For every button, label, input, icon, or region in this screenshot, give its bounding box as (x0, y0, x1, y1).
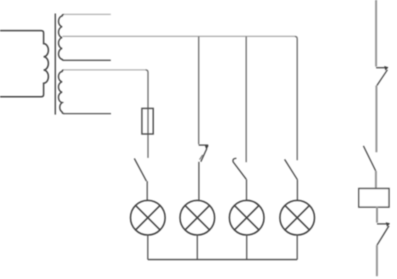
wire: between Q1 and Q2 (375, 86, 377, 153)
lamp E4 (280, 200, 315, 235)
switch Q1 blade (377, 70, 388, 86)
wire: center-tap rail to lamp branches (63, 35, 295, 37)
transformer T1 primary winding (0, 31, 48, 97)
transformer T1 core (54, 14, 56, 115)
wire: lamp E3 bottom stub (246, 235, 248, 260)
transformer T1 lower secondary winding (58, 70, 64, 114)
wire: upper secondary top lead (64, 13, 111, 15)
lamp E3 (229, 200, 264, 235)
wire: switch Q2 to coil K1 (375, 171, 377, 189)
wire: right circuit bottom lead (376, 245, 378, 276)
lamp E1 (131, 200, 166, 235)
wire: bottom return rail (148, 259, 297, 261)
wire: lower secondary top lead (64, 69, 146, 71)
switch S1 blade (134, 158, 146, 181)
wire: branch 1 corner down to fuse (146, 70, 149, 158)
fuse F1 (142, 108, 153, 134)
switch S2 contact tick (199, 144, 209, 146)
switch S2 blade (201, 149, 207, 162)
wire: upper secondary bottom lead (64, 59, 111, 61)
wire: lamp E2 bottom stub (196, 235, 198, 260)
switch S2 blade flag (200, 155, 203, 160)
switch Q3 blade (377, 226, 389, 245)
wire: lower secondary bottom lead (64, 113, 112, 115)
lamp E2 (180, 200, 215, 235)
switch Q3 contact tick (377, 223, 389, 225)
switch S3 blade with hook tip (233, 158, 246, 179)
wire: lamp E1 bottom stub (147, 235, 149, 260)
switch Q2 blade (363, 146, 375, 171)
wire: branch 3 drop (245, 36, 247, 162)
wire: coil K1 to switch Q3 (376, 207, 378, 223)
switch S2 arrowhead (205, 146, 209, 151)
wire: switch S1 to lamp E1 (146, 181, 148, 201)
switch S4 blade (285, 159, 298, 179)
wire: lamp E4 bottom stub (296, 235, 298, 260)
relay coil K1 (359, 189, 389, 208)
wire: branch 4 corner and drop (295, 36, 298, 160)
switch Q1 contact tick (376, 67, 388, 69)
wire: switch S2 to lamp E2 (198, 162, 200, 201)
wire: switch S4 to lamp E4 (296, 180, 298, 201)
wire: right circuit top feeder (375, 0, 377, 67)
switch Q1 arrowhead (384, 66, 388, 71)
transformer T1 upper secondary winding (59, 14, 64, 60)
switch Q3 arrowhead (386, 222, 390, 227)
wire: branch 2 drop (198, 36, 200, 144)
wire: switch S3 to lamp E3 (246, 179, 248, 201)
